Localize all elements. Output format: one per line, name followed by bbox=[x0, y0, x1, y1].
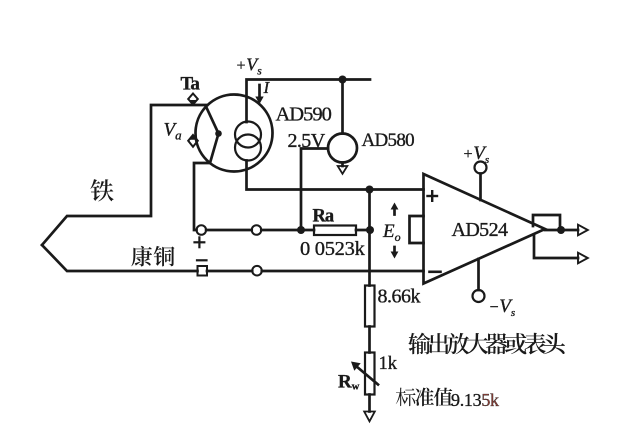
svg-text:0 0523k: 0 0523k bbox=[300, 238, 366, 260]
svg-text:AD590: AD590 bbox=[276, 104, 332, 126]
svg-text:AD580: AD580 bbox=[362, 130, 415, 151]
AD590 current source upper circle bbox=[235, 122, 261, 148]
node Va diamond marker bbox=[188, 135, 198, 147]
label iron (CJK) bbox=[90, 179, 113, 201]
wire plus row segment 1 bbox=[206, 229, 252, 232]
svg-text:Eo: Eo bbox=[382, 221, 401, 244]
svg-text:+Vs: +Vs bbox=[236, 55, 263, 78]
wire iron thermocouple arm bbox=[42, 105, 207, 245]
wire +Vs supply rail bbox=[247, 80, 371, 123]
wire plus row segment 2 bbox=[261, 229, 314, 232]
wire AD590 output to plus bus bbox=[247, 161, 424, 190]
caption output amplifier or meter head (CJK) bbox=[408, 333, 430, 355]
input box on AD524 left edge bbox=[410, 216, 424, 243]
wire AD524 output bbox=[545, 229, 578, 232]
svg-text:9.135k: 9.135k bbox=[451, 390, 499, 410]
svg-text:AD524: AD524 bbox=[452, 219, 508, 241]
junction dot plus bus / feedback branch bbox=[366, 186, 374, 194]
wire AD590 lower-left stub down to plus terminal bbox=[194, 163, 210, 230]
potentiometer Rw body 1k bbox=[365, 353, 375, 395]
AD590 internal arrow upper branch bbox=[206, 107, 219, 134]
svg-text:Ta: Ta bbox=[181, 74, 201, 95]
reference U2 AD580 body circle bbox=[328, 134, 357, 163]
svg-text:8.66k: 8.66k bbox=[378, 286, 421, 308]
AD590 internal arrow lower branch bbox=[210, 134, 219, 164]
svg-text:+Vs: +Vs bbox=[463, 143, 490, 166]
svg-text:−Vs: −Vs bbox=[489, 296, 516, 319]
svg-text:Rw: Rw bbox=[338, 372, 360, 393]
op-amp U3 AD524 triangle bbox=[424, 174, 546, 284]
wire -Vs terminal to AD524 bbox=[477, 259, 480, 290]
terminal -Vs of AD524 bbox=[473, 290, 485, 302]
ground symbol bbox=[364, 412, 375, 422]
wire pot to ground bbox=[368, 395, 371, 412]
svg-text:Va: Va bbox=[164, 120, 183, 143]
AD590 internal arrow vertex node bbox=[215, 130, 222, 137]
wire constantan thermocouple arm bbox=[42, 245, 198, 271]
plus input mark inside AD524 bbox=[428, 195, 438, 197]
resistor Ra body bbox=[314, 226, 356, 236]
output arrow 2 bbox=[578, 253, 588, 264]
Eo up arrow bbox=[393, 209, 396, 215]
AD590 current source lower circle bbox=[235, 135, 261, 161]
junction dot 2.5V joins plus row bbox=[297, 226, 305, 234]
current I annotation arrow bbox=[258, 85, 261, 97]
potentiometer wiper arrow bbox=[356, 366, 378, 385]
wire +Vs rail down to AD580 bbox=[341, 80, 344, 134]
label constantan (CJK) bbox=[131, 246, 152, 267]
wire AD580 2.5V output down to plus row bbox=[301, 149, 328, 230]
node Ta diamond marker bbox=[188, 94, 198, 105]
resistor 8.66k body bbox=[365, 286, 375, 327]
terminal circle plus row left bbox=[197, 225, 207, 235]
terminal circle plus row mid bbox=[252, 225, 262, 235]
output arrow 1 bbox=[578, 225, 588, 236]
plus polarity mark bbox=[195, 241, 205, 243]
terminal circle constantan row mid bbox=[252, 266, 262, 276]
svg-text:2.5V: 2.5V bbox=[288, 130, 326, 152]
caption standard value (CJK) bbox=[396, 388, 406, 407]
wire constantan row to AD524 minus input bbox=[262, 270, 424, 273]
terminal square constantan row bbox=[198, 266, 208, 276]
wire constantan row middle segment bbox=[207, 270, 252, 273]
wire between 8.66k and pot bbox=[368, 327, 371, 353]
sensor U1 AD590 body circle bbox=[196, 95, 273, 172]
terminal +Vs of AD524 bbox=[475, 162, 487, 174]
minus input mark inside AD524 bbox=[430, 270, 441, 273]
feedback box at output bbox=[533, 215, 560, 230]
wire +Vs terminal to AD524 bbox=[479, 174, 482, 201]
wire sense branch bbox=[534, 235, 578, 259]
svg-text:Ra: Ra bbox=[313, 207, 334, 227]
junction dot output bbox=[557, 226, 565, 234]
Eo down arrow bbox=[393, 247, 396, 252]
minus polarity mark bbox=[197, 259, 207, 261]
wire branch vertical down to 8.66k bbox=[368, 190, 371, 286]
ground arrow under AD580 bbox=[341, 163, 344, 167]
junction dot on +Vs rail bbox=[339, 76, 347, 84]
wire Ra right to branch bbox=[356, 229, 370, 232]
svg-text:1k: 1k bbox=[379, 354, 398, 374]
junction dot Ra right / branch bbox=[366, 226, 374, 234]
